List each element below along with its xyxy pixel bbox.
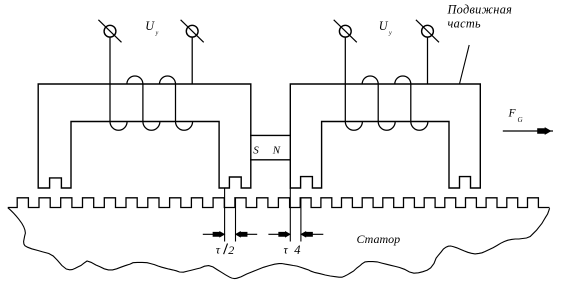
svg-text:y: y	[388, 31, 392, 37]
svg-text:G: G	[518, 116, 523, 124]
svg-text:2: 2	[228, 243, 234, 257]
svg-text:F: F	[508, 108, 517, 120]
svg-text:S: S	[253, 145, 259, 157]
svg-text:4: 4	[294, 243, 300, 257]
svg-text:часть: часть	[448, 17, 482, 31]
svg-text:U: U	[145, 19, 155, 33]
svg-text:Статор: Статор	[357, 232, 401, 246]
svg-text:U: U	[379, 19, 389, 33]
svg-text:y: y	[155, 31, 159, 37]
svg-text:Подвижная: Подвижная	[447, 3, 513, 17]
svg-text:N: N	[272, 145, 281, 157]
svg-text:τ: τ	[216, 243, 221, 257]
svg-text:τ: τ	[284, 243, 289, 257]
